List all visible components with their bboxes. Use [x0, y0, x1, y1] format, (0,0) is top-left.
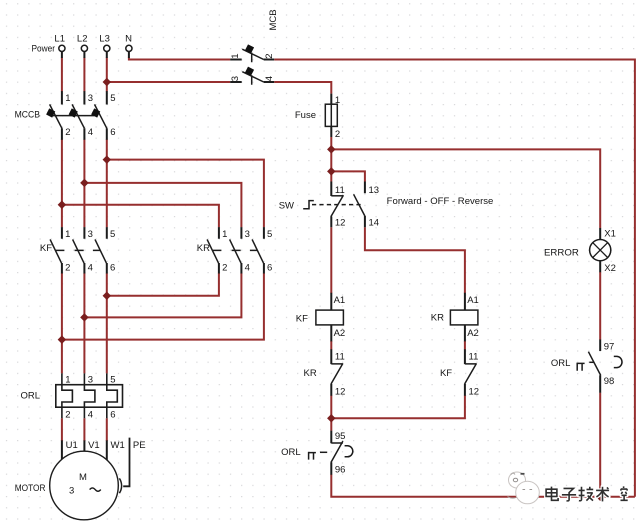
svg-text:3: 3: [245, 229, 250, 240]
svg-text:4: 4: [88, 263, 93, 274]
svg-text:6: 6: [110, 410, 115, 421]
svg-text:KF: KF: [440, 368, 452, 379]
svg-text:3: 3: [69, 486, 74, 497]
svg-text:95: 95: [335, 431, 346, 442]
svg-text:1: 1: [335, 95, 340, 106]
svg-text:12: 12: [335, 387, 346, 398]
svg-text:5: 5: [110, 374, 115, 385]
svg-text:4: 4: [88, 410, 93, 421]
svg-text:L3: L3: [99, 33, 110, 44]
svg-text:MOTOR: MOTOR: [15, 483, 46, 494]
svg-text:A2: A2: [334, 328, 346, 339]
svg-text:KR: KR: [431, 312, 444, 323]
svg-text:ORL: ORL: [21, 390, 41, 401]
svg-text:KF: KF: [40, 243, 52, 254]
svg-text:ERROR: ERROR: [544, 247, 579, 258]
svg-text:X1: X1: [604, 229, 616, 240]
svg-text:2: 2: [65, 410, 70, 421]
svg-text:2: 2: [65, 263, 70, 274]
svg-text:KF: KF: [296, 313, 308, 324]
svg-text:12: 12: [469, 387, 480, 398]
svg-text:A1: A1: [334, 295, 346, 306]
svg-text:M: M: [79, 472, 87, 483]
svg-text:5: 5: [110, 93, 115, 104]
svg-text:14: 14: [369, 217, 380, 228]
svg-text:5: 5: [110, 229, 115, 240]
svg-text:Fuse: Fuse: [295, 110, 316, 121]
svg-text:6: 6: [110, 263, 115, 274]
svg-text:97: 97: [604, 341, 615, 352]
svg-text:Forward - OFF - Reverse: Forward - OFF - Reverse: [387, 196, 494, 207]
svg-text:3: 3: [88, 93, 93, 104]
svg-text:5: 5: [267, 229, 272, 240]
svg-text:MCB: MCB: [268, 9, 279, 30]
svg-text:1: 1: [65, 229, 70, 240]
svg-text:A1: A1: [467, 295, 479, 306]
svg-text:ORL: ORL: [281, 447, 301, 458]
svg-text:11: 11: [469, 351, 479, 362]
svg-text:3: 3: [230, 76, 241, 81]
svg-text:SW: SW: [279, 200, 294, 211]
svg-text:1: 1: [65, 374, 70, 385]
svg-text:2: 2: [264, 53, 275, 58]
svg-text:2: 2: [335, 129, 340, 140]
svg-text:4: 4: [88, 127, 93, 138]
svg-text:11: 11: [335, 185, 345, 196]
svg-text:96: 96: [335, 464, 346, 475]
svg-text:A2: A2: [467, 328, 479, 339]
svg-text:L1: L1: [54, 33, 65, 44]
svg-text:ORL: ORL: [551, 358, 571, 369]
svg-text:12: 12: [335, 217, 346, 228]
svg-text:1: 1: [230, 53, 241, 58]
svg-text:Power: Power: [32, 44, 56, 55]
svg-text:U1: U1: [66, 440, 78, 451]
svg-text:1: 1: [65, 93, 70, 104]
svg-text:N: N: [125, 33, 132, 44]
svg-text:4: 4: [264, 76, 275, 81]
svg-text:KR: KR: [303, 368, 316, 379]
svg-text:3: 3: [88, 374, 93, 385]
svg-text:3: 3: [88, 229, 93, 240]
svg-text:L2: L2: [77, 33, 88, 44]
svg-text:W1: W1: [111, 440, 125, 451]
svg-text:KR: KR: [197, 243, 210, 254]
svg-text:13: 13: [369, 185, 380, 196]
svg-text:X2: X2: [604, 263, 616, 274]
svg-text:2: 2: [65, 127, 70, 138]
svg-text:1: 1: [222, 229, 227, 240]
svg-text:6: 6: [110, 127, 115, 138]
svg-text:MCCB: MCCB: [15, 109, 40, 120]
svg-text:6: 6: [267, 263, 272, 274]
svg-text:2: 2: [222, 263, 227, 274]
svg-text:98: 98: [604, 376, 615, 387]
svg-text:11: 11: [335, 351, 345, 362]
svg-text:V1: V1: [88, 440, 100, 451]
svg-text:4: 4: [245, 263, 250, 274]
svg-text:PE: PE: [133, 440, 146, 451]
